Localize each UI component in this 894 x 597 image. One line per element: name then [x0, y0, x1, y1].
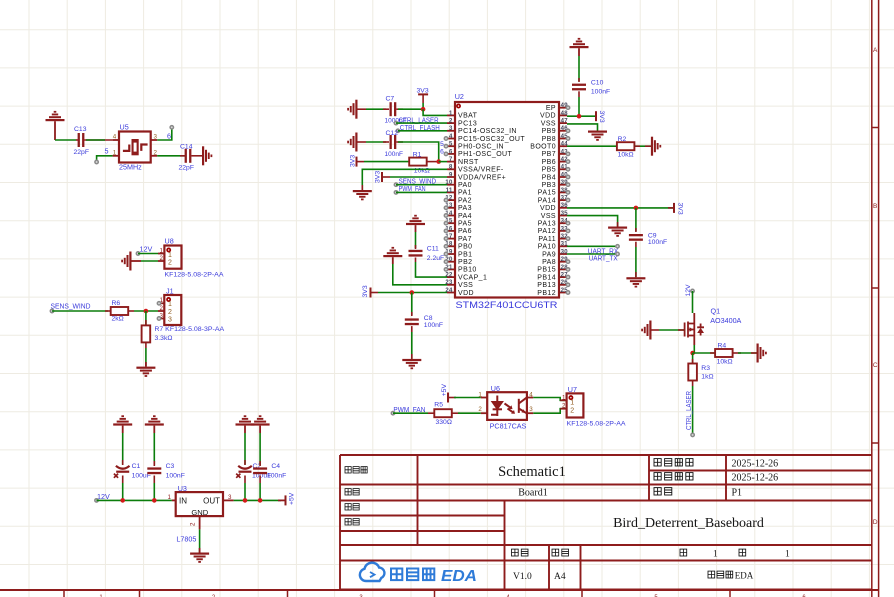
svg-text:A4: A4	[554, 572, 566, 582]
svg-text:2: 2	[562, 402, 566, 409]
wire	[55, 139, 76, 141]
svg-text:PA8: PA8	[542, 259, 556, 266]
wire (output rail)	[234, 499, 281, 501]
svg-text:Bird_Deterrent_Baseboard: Bird_Deterrent_Baseboard	[613, 516, 764, 531]
svg-text:SENS_WIND: SENS_WIND	[51, 302, 91, 311]
resistor R2	[617, 136, 651, 159]
svg-text:Q1: Q1	[711, 307, 721, 316]
svg-text:U2: U2	[455, 92, 464, 101]
svg-text:PA10: PA10	[538, 244, 556, 251]
原理图	[345, 467, 367, 473]
svg-text:PB1: PB1	[458, 251, 472, 258]
ground (crystal left)	[46, 111, 65, 121]
svg-text:VDD: VDD	[540, 205, 556, 212]
svg-text:A: A	[873, 47, 878, 54]
wire	[122, 433, 124, 465]
svg-text:C1: C1	[132, 463, 141, 470]
wire	[635, 247, 637, 277]
svg-text:Schematic1: Schematic1	[498, 464, 566, 480]
svg-text:2: 2	[160, 305, 164, 312]
ground above C1	[113, 415, 132, 425]
svg-text:PC817CAS: PC817CAS	[490, 421, 527, 430]
尺寸	[552, 549, 569, 556]
capacitor C10	[572, 78, 610, 97]
wire	[153, 483, 155, 500]
+5V power flag (U6 pin1)	[441, 384, 456, 403]
svg-text:PA1: PA1	[458, 190, 472, 197]
wire	[411, 332, 413, 359]
svg-text:4: 4	[529, 392, 533, 399]
svg-text:VDD: VDD	[540, 113, 556, 120]
ground above C3	[145, 415, 164, 425]
svg-text:P1: P1	[732, 488, 743, 499]
wire (VSS47 to gnd)	[567, 124, 598, 131]
svg-text:PA5: PA5	[458, 221, 472, 228]
svg-text:2: 2	[168, 260, 172, 267]
ground (C7 left)	[347, 100, 357, 119]
title block labels	[345, 459, 790, 583]
svg-text:3: 3	[228, 494, 232, 501]
svg-text:22pF: 22pF	[179, 165, 195, 172]
svg-text:U5: U5	[120, 123, 129, 132]
connector U7	[560, 385, 626, 428]
wire	[153, 433, 155, 466]
stub dot J1 pin1	[157, 302, 160, 305]
svg-text:5: 5	[105, 146, 109, 155]
svg-text:PA9: PA9	[542, 251, 556, 258]
svg-text:PA4: PA4	[458, 213, 472, 220]
svg-text:5: 5	[449, 142, 453, 148]
ground (VSS47)	[588, 131, 607, 141]
svg-text:2: 2	[449, 119, 453, 125]
svg-text:3: 3	[529, 406, 533, 413]
logo text 嘉立创	[391, 569, 434, 581]
net label UART_RX (PA10)	[567, 245, 619, 256]
MCU U2 STM32F401CCU6TR	[445, 92, 568, 310]
3V3 power flag (VDD36)	[668, 203, 684, 215]
3V3 power flag (VBAT)	[417, 87, 429, 109]
svg-text:1: 1	[168, 301, 172, 308]
wire	[364, 161, 409, 163]
svg-text:EDA: EDA	[735, 571, 754, 581]
svg-text:Board1: Board1	[518, 488, 547, 499]
wire (to NRST pin7)	[439, 161, 447, 163]
junction	[258, 498, 263, 503]
共	[739, 549, 746, 556]
svg-text:2: 2	[160, 255, 164, 262]
svg-text:C: C	[873, 362, 878, 369]
frame bottom column numbers (mostly cropped)	[99, 595, 806, 597]
绘制	[345, 504, 359, 510]
ground (C9)	[626, 277, 645, 287]
svg-text:PB7: PB7	[542, 151, 556, 158]
wire	[259, 433, 261, 466]
svg-text:PB0: PB0	[458, 244, 472, 251]
wire (to U6 pin1)	[454, 397, 481, 399]
svg-text:100nF: 100nF	[166, 472, 185, 479]
capacitor C1	[114, 460, 151, 483]
resistor R5	[428, 401, 460, 426]
创建日期	[654, 459, 693, 466]
wire (junction down to C9)	[635, 208, 637, 231]
wire	[199, 529, 201, 552]
wire (source to junction)	[693, 345, 695, 349]
capacitor C8	[405, 312, 443, 332]
svg-text:VSSA/VREF-: VSSA/VREF-	[458, 167, 504, 174]
ground above C11	[406, 215, 425, 225]
+5V power flag (U3 out)	[278, 492, 296, 505]
JLC EDA logo	[360, 563, 477, 585]
capacitor C7	[383, 96, 407, 125]
svg-text:VSS: VSS	[458, 282, 473, 289]
svg-text:8: 8	[449, 165, 453, 171]
net label CTRL_FLASH (pin3)	[396, 123, 447, 133]
svg-text:PA2: PA2	[458, 197, 472, 204]
capacitor C14	[157, 144, 202, 172]
capacitor C4	[253, 461, 286, 483]
svg-text:VDDA/VREF+: VDDA/VREF+	[458, 174, 506, 181]
svg-text:3V3: 3V3	[350, 155, 357, 167]
svg-text:7: 7	[449, 157, 453, 163]
svg-text:2: 2	[570, 407, 574, 414]
svg-text:C13: C13	[74, 126, 87, 133]
svg-text:1: 1	[478, 392, 482, 399]
svg-text:100nF: 100nF	[591, 89, 610, 96]
3V3 power flag (VDDA pin9)	[375, 171, 448, 183]
frame bottom ticks	[64, 590, 730, 597]
title block grid lines	[340, 455, 872, 590]
svg-text:PB4: PB4	[542, 174, 556, 181]
svg-text:4: 4	[113, 134, 117, 141]
svg-text:1: 1	[570, 399, 574, 406]
capacitor C13	[74, 126, 113, 156]
svg-text:J1: J1	[166, 286, 174, 295]
wire	[122, 483, 124, 500]
svg-text:PA6: PA6	[458, 228, 472, 235]
net 5 stub (crystal)	[95, 146, 113, 163]
svg-text:2.2uF: 2.2uF	[427, 255, 444, 262]
svg-text:C4: C4	[271, 463, 280, 470]
3V3 power flag (VDD48)	[595, 111, 605, 123]
svg-text:3V3: 3V3	[677, 203, 684, 215]
unconnected pin dots (U2 left)	[444, 137, 447, 271]
junction	[144, 309, 149, 314]
wire	[145, 348, 147, 367]
svg-text:U6: U6	[491, 384, 500, 393]
svg-text:1: 1	[168, 494, 172, 501]
svg-text:1: 1	[785, 550, 790, 560]
svg-text:L7805: L7805	[176, 535, 196, 544]
wire (U6 pin4 to U7 pin1)	[533, 398, 566, 401]
svg-text:PB9: PB9	[542, 128, 556, 135]
svg-text:100nF: 100nF	[267, 472, 286, 479]
svg-text:VDD: VDD	[458, 290, 474, 297]
svg-text:PA14: PA14	[538, 197, 556, 204]
capacitor C3	[147, 461, 185, 483]
板子	[345, 489, 359, 495]
svg-text:2: 2	[168, 309, 172, 316]
svg-text:12V: 12V	[140, 245, 153, 254]
svg-text:5: 5	[440, 141, 444, 148]
页	[680, 549, 687, 556]
wire	[86, 139, 105, 141]
transistor Q1 AO3400A	[685, 307, 742, 346]
wire	[398, 108, 423, 110]
svg-text:C14: C14	[180, 144, 193, 151]
wire (VDD36)	[567, 207, 674, 209]
svg-text:PA13: PA13	[538, 221, 556, 228]
net label CTRL_LASER (R3 bottom)	[684, 386, 694, 437]
svg-text:GND: GND	[191, 508, 208, 517]
wire	[259, 483, 261, 500]
svg-text:PC14-OSC32_IN: PC14-OSC32_IN	[458, 128, 517, 135]
wire	[134, 310, 158, 312]
图页	[654, 488, 672, 495]
wire	[738, 352, 757, 354]
svg-text:22pF: 22pF	[74, 149, 90, 156]
net label SENS_WIND (pin10)	[394, 176, 447, 186]
svg-text:PA7: PA7	[458, 236, 472, 243]
svg-text:B: B	[873, 203, 877, 210]
wire	[415, 232, 417, 248]
svg-text:PB15: PB15	[537, 267, 556, 274]
svg-text:NRST: NRST	[458, 159, 479, 166]
svg-text:VCAP_1: VCAP_1	[458, 274, 487, 281]
ground above C10	[570, 38, 589, 48]
ground (crystal right)	[202, 146, 212, 165]
svg-text:R1: R1	[413, 151, 422, 158]
resistor R1	[409, 151, 439, 174]
net label UART_TX (PA9)	[567, 252, 619, 262]
crystal U5	[113, 123, 158, 172]
svg-text:1kΩ: 1kΩ	[701, 373, 713, 380]
wire	[366, 141, 386, 143]
wire (C10 to VDD pin48)	[578, 97, 580, 116]
ground (U3 GND)	[190, 553, 209, 563]
net label PWM_FAN (U6)	[391, 405, 428, 415]
wire	[578, 56, 580, 81]
wire	[693, 352, 716, 354]
svg-text:3: 3	[168, 317, 172, 324]
svg-text:OUT: OUT	[203, 496, 220, 505]
svg-text:CTRL_LASER: CTRL_LASER	[684, 391, 693, 430]
svg-text:R5: R5	[434, 401, 443, 408]
嘉立创EDA	[708, 571, 733, 578]
svg-text:R2: R2	[618, 136, 627, 143]
unconnected pin dots (U2 right)	[566, 106, 569, 294]
junction	[577, 114, 582, 119]
resistor R3	[688, 353, 713, 386]
optocoupler U6 PC817CAS	[478, 384, 533, 431]
ground above C4	[251, 415, 270, 425]
svg-text:R7: R7	[155, 326, 164, 333]
sheet frame bottom border	[0, 589, 879, 591]
capacitor C2	[236, 460, 271, 483]
svg-text:PA15: PA15	[538, 190, 556, 197]
svg-text:1: 1	[168, 252, 172, 259]
svg-text:PH1-OSC_OUT: PH1-OSC_OUT	[458, 151, 513, 158]
svg-text:PA3: PA3	[458, 205, 472, 212]
svg-text:2: 2	[154, 149, 158, 156]
capacitor C11	[409, 245, 445, 262]
svg-text:2: 2	[478, 406, 482, 413]
svg-text:R4: R4	[718, 343, 727, 350]
svg-text:PB14: PB14	[537, 274, 556, 281]
sheet frame right border	[872, 0, 879, 597]
svg-text:2025-12-26: 2025-12-26	[732, 459, 779, 470]
net 6 stub (crystal)	[157, 126, 173, 141]
resistor R7	[142, 311, 173, 348]
svg-text:6: 6	[167, 132, 171, 141]
svg-text:PB2: PB2	[458, 259, 472, 266]
capacitor C12	[383, 130, 403, 158]
svg-text:6: 6	[440, 149, 444, 156]
svg-text:25MHz: 25MHz	[119, 163, 142, 172]
junction	[690, 351, 695, 356]
wire (gate)	[659, 329, 685, 331]
svg-text:3V3: 3V3	[598, 111, 605, 123]
wire (C11 to VCAP_1 pin22)	[416, 262, 448, 277]
svg-text:6: 6	[449, 149, 453, 155]
svg-text:PA11: PA11	[538, 236, 556, 243]
stub dot J1 pin3	[157, 317, 160, 320]
regulator U3 L7805	[168, 484, 234, 544]
svg-text:PB13: PB13	[537, 282, 556, 289]
net label PWM_FAN (pin11)	[394, 184, 447, 194]
ground above VSS23	[383, 247, 402, 257]
svg-text:1: 1	[160, 247, 164, 254]
wire	[567, 115, 596, 117]
svg-text:C3: C3	[166, 463, 175, 470]
svg-text:1: 1	[449, 111, 453, 117]
svg-text:VSS: VSS	[541, 213, 556, 220]
svg-text:PB12: PB12	[537, 290, 556, 297]
svg-text:V1.0: V1.0	[513, 572, 532, 582]
svg-text:KF128-5.08-2P-AA: KF128-5.08-2P-AA	[567, 421, 626, 428]
ground (Q1 gate)	[641, 321, 651, 340]
svg-text:PB8: PB8	[542, 136, 556, 143]
svg-text:3.3kΩ: 3.3kΩ	[155, 335, 173, 342]
svg-text:1: 1	[113, 149, 117, 156]
svg-text:PB5: PB5	[542, 167, 556, 174]
版本	[512, 549, 529, 556]
ground (R7)	[136, 367, 155, 377]
svg-text:C7: C7	[386, 96, 395, 103]
svg-text:9: 9	[449, 172, 453, 178]
svg-text:3: 3	[154, 134, 158, 141]
svg-text:2kΩ: 2kΩ	[112, 316, 124, 323]
wire (U6 pin3 to U7 pin2)	[533, 409, 566, 414]
wire	[366, 108, 386, 110]
svg-text:KF128-5.08-2P-AA: KF128-5.08-2P-AA	[165, 272, 224, 279]
svg-text:1: 1	[713, 550, 718, 560]
svg-text:2: 2	[190, 522, 197, 526]
capacitor C9	[629, 228, 667, 247]
ground (VSS35)	[608, 227, 627, 237]
wire	[141, 260, 158, 262]
svg-text:PB3: PB3	[542, 182, 556, 189]
net label CTRL_LASER (pin2)	[394, 115, 447, 125]
svg-text:+5V: +5V	[289, 492, 296, 505]
resistor R6	[105, 300, 134, 323]
ground above C2	[236, 415, 255, 425]
svg-text:4: 4	[449, 134, 453, 140]
junction	[243, 498, 248, 503]
net label 12V (U3 input)	[95, 492, 172, 502]
ground (C8)	[402, 359, 421, 369]
svg-text:PA12: PA12	[538, 228, 556, 235]
junction	[634, 206, 639, 211]
wire (gnd to VSS pin23)	[393, 264, 447, 285]
svg-text:3V3: 3V3	[362, 285, 369, 297]
ground (C12 left)	[347, 133, 357, 152]
svg-text:U3: U3	[178, 484, 187, 493]
ground (VSSA)	[353, 190, 372, 200]
svg-text:3V3: 3V3	[375, 171, 382, 183]
svg-text:VSS: VSS	[541, 120, 556, 127]
frame row letters	[873, 47, 878, 526]
svg-text:R3: R3	[701, 365, 710, 372]
wire (C12 to NRST net)	[398, 142, 439, 162]
junction	[152, 498, 157, 503]
svg-text:BOOT0: BOOT0	[530, 144, 556, 151]
svg-text:PC13: PC13	[458, 120, 477, 127]
svg-text:C11: C11	[427, 246, 439, 253]
svg-text:STM32F401CCU6TR: STM32F401CCU6TR	[456, 300, 558, 310]
wire (to VBAT pin1)	[423, 109, 447, 115]
svg-text:3V3: 3V3	[417, 87, 429, 94]
svg-text:U7: U7	[568, 385, 577, 394]
svg-text:U8: U8	[165, 237, 174, 246]
junction	[410, 290, 415, 295]
junction	[436, 159, 441, 164]
svg-text:KF128-5.08-3P-AA: KF128-5.08-3P-AA	[165, 326, 224, 333]
wire (VSSA pin8 to gnd)	[362, 169, 447, 190]
wire (VSS35 to gnd)	[567, 216, 618, 227]
svg-text:1: 1	[562, 394, 566, 401]
ground (R4)	[757, 344, 767, 363]
junction	[120, 498, 125, 503]
wire (BOOT0)	[567, 145, 617, 147]
svg-text:IN: IN	[179, 496, 187, 505]
svg-text:PA0: PA0	[458, 182, 472, 189]
svg-text:10kΩ: 10kΩ	[414, 167, 430, 174]
svg-text:PB6: PB6	[542, 159, 556, 166]
net label 12V (Q1 drain)	[685, 284, 694, 313]
更新日期	[654, 473, 693, 480]
svg-text:EDA: EDA	[441, 568, 477, 585]
svg-text:VBAT: VBAT	[458, 113, 478, 120]
svg-text:AO3400A: AO3400A	[710, 316, 741, 325]
svg-text:12V: 12V	[685, 284, 692, 297]
connector U8	[158, 237, 224, 279]
svg-text:C12: C12	[386, 130, 399, 137]
svg-text:+5V: +5V	[441, 384, 448, 397]
svg-text:330Ω: 330Ω	[436, 419, 452, 426]
svg-text:10kΩ: 10kΩ	[717, 359, 733, 366]
svg-text:PH0-OSC_IN: PH0-OSC_IN	[458, 144, 504, 151]
wire (R5 to U6 pin2)	[458, 412, 481, 414]
net label SENS_WIND (J1)	[50, 302, 108, 313]
svg-text:100nF: 100nF	[385, 151, 403, 158]
connector J1	[158, 286, 225, 333]
svg-text:D: D	[873, 519, 878, 526]
wire	[244, 433, 246, 465]
svg-text:3: 3	[449, 126, 453, 132]
3V3 power flag (VDD pin24)	[362, 285, 447, 297]
wire	[244, 483, 246, 500]
ground (U8 pin2)	[121, 252, 131, 271]
